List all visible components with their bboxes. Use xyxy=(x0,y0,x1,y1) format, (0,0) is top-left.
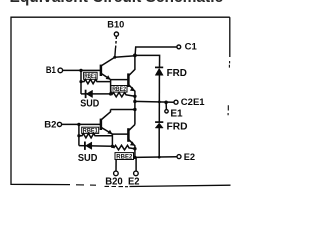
svg-text:B1: B1 xyxy=(46,65,57,76)
svg-text:RBE2: RBE2 xyxy=(116,154,133,160)
svg-text:FRD: FRD xyxy=(167,68,188,79)
svg-text:RBE1: RBE1 xyxy=(83,129,99,135)
svg-text:FRD: FRD xyxy=(167,122,188,133)
svg-text:SUD: SUD xyxy=(78,152,98,164)
svg-text:SUD: SUD xyxy=(80,98,99,110)
svg-text:E2: E2 xyxy=(184,152,195,162)
svg-text:E1: E1 xyxy=(170,108,183,119)
svg-text:B20: B20 xyxy=(105,175,123,187)
svg-text:B10: B10 xyxy=(107,19,124,30)
svg-text:B2: B2 xyxy=(44,119,56,130)
svg-text:C2E1: C2E1 xyxy=(181,97,205,108)
svg-text:RBE2: RBE2 xyxy=(112,87,126,93)
svg-text:RBE1: RBE1 xyxy=(84,74,96,80)
svg-text:C1: C1 xyxy=(185,41,198,52)
svg-text:E2: E2 xyxy=(128,175,140,187)
svg-text:Equivalent Circuit Schematic: Equivalent Circuit Schematic xyxy=(10,0,224,6)
